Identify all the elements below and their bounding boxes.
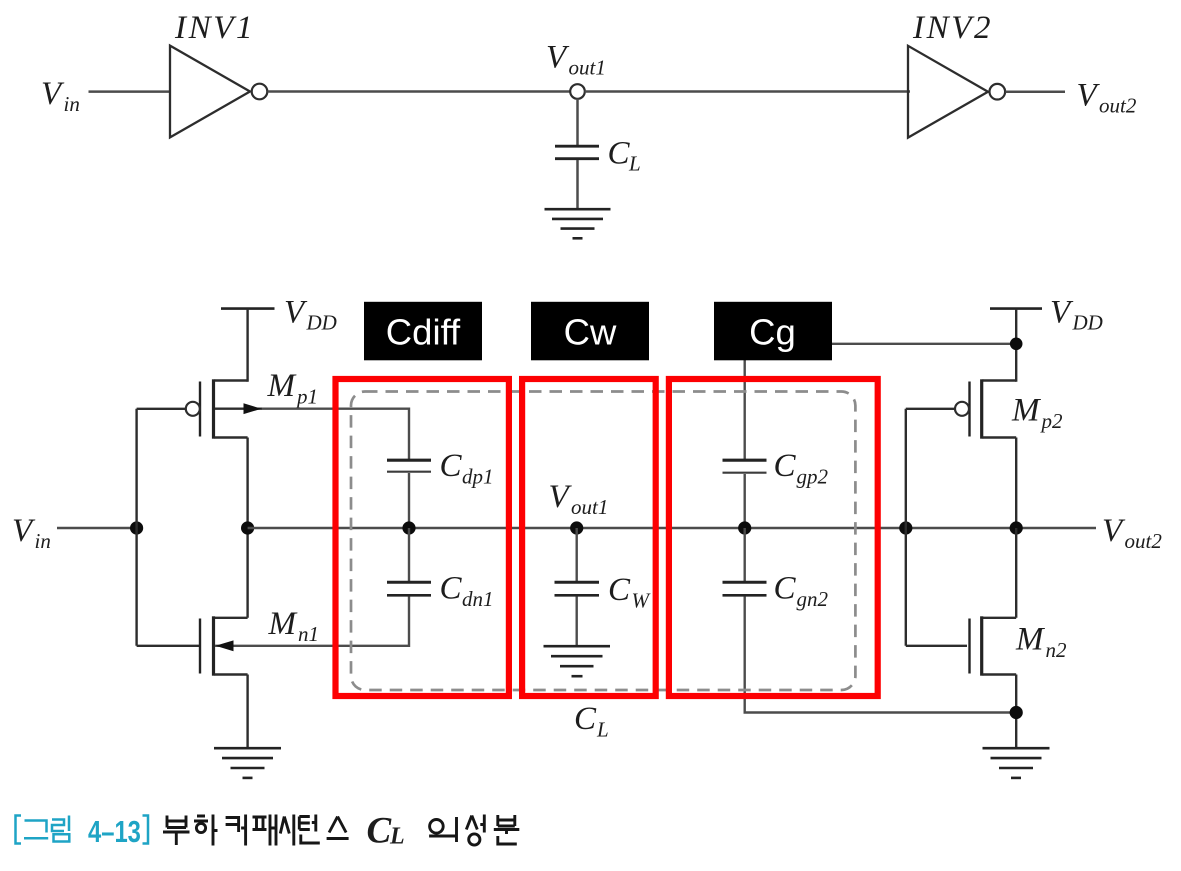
hangul 의 bbox=[429, 817, 456, 842]
hangul 시 bbox=[280, 815, 294, 846]
wire Vin to gate node bbox=[57, 527, 137, 530]
capacitor CW label bbox=[608, 572, 652, 613]
node Vout2 (bottom) label bbox=[1102, 513, 1162, 553]
ground (left inverter) bbox=[214, 748, 281, 778]
wire Mn2 source down to ground bbox=[1015, 675, 1017, 749]
svg-text:V: V bbox=[546, 40, 570, 76]
wire node Vout1 down to capacitor CL bbox=[576, 99, 579, 147]
transistor Q Mn2 (NMOS) bbox=[970, 616, 1017, 675]
Mp1 gate bubble bbox=[186, 402, 200, 416]
node Vout2 (top) label bbox=[1077, 78, 1137, 118]
svg-text:n1: n1 bbox=[298, 622, 319, 646]
capacitor CW plates bbox=[555, 581, 600, 584]
wire node down to CW bbox=[576, 528, 578, 582]
wire Mp2 drain down to Vout2 node bbox=[1015, 438, 1017, 529]
hangul 커 bbox=[226, 815, 246, 846]
wire VDD down to Mp2 source bbox=[1015, 309, 1017, 382]
wire Mn2 drain up to Vout2 node bbox=[1015, 528, 1017, 618]
svg-text:C: C bbox=[608, 136, 631, 172]
wire node to Cdn1 bbox=[408, 528, 410, 582]
power VDD (left) label bbox=[284, 295, 337, 335]
transistor Mn1 label bbox=[268, 606, 320, 646]
transistor Mp1 label bbox=[267, 368, 319, 409]
svg-text:C: C bbox=[367, 811, 393, 852]
junction VDD / Cg node bbox=[1010, 338, 1023, 351]
Mn2 channel bar bbox=[980, 616, 983, 675]
junction node at Cw bbox=[570, 521, 583, 534]
wire gate node vertical (right) bbox=[905, 409, 907, 646]
svg-text:V: V bbox=[1077, 78, 1101, 114]
Mn1 drain lead bbox=[215, 617, 248, 619]
hangul 스 bbox=[327, 817, 349, 839]
ground (right inverter) bbox=[983, 748, 1050, 778]
inverter INV1 output bubble bbox=[252, 84, 268, 100]
junction Vout2 node bbox=[1010, 521, 1023, 534]
wire Vin to INV1 input bbox=[89, 90, 172, 93]
hangul 턴 bbox=[299, 815, 320, 844]
op-amp/inverter INV2 triangle bbox=[908, 46, 988, 138]
caption tag [그림 4-13] (teal) bbox=[16, 814, 149, 849]
svg-text:Cw: Cw bbox=[564, 312, 617, 353]
svg-text:out2: out2 bbox=[1125, 529, 1163, 553]
svg-text:M: M bbox=[268, 606, 298, 642]
svg-text:V: V bbox=[1102, 513, 1126, 549]
svg-text:out1: out1 bbox=[569, 56, 606, 80]
svg-text:Cdiff: Cdiff bbox=[386, 312, 461, 353]
wire output net Vout1 (long horizontal) bbox=[248, 527, 1096, 530]
node Vin (bottom) label bbox=[12, 513, 51, 553]
capacitor Cgn2 branch bbox=[723, 528, 1017, 713]
svg-text:in: in bbox=[35, 529, 51, 553]
wire gate node to Mn1 gate bbox=[137, 645, 199, 647]
wire Cg net from VDD junction to Cgp2 (over and down) bbox=[745, 344, 1016, 460]
node Vin (top) label bbox=[41, 76, 80, 116]
power VDD (right) bar bbox=[990, 307, 1042, 310]
capacitor Cgn2 plates bbox=[723, 581, 767, 584]
svg-text:C: C bbox=[440, 448, 463, 484]
Mp1 gate bar bbox=[199, 382, 201, 437]
node Vout1 (top) open circle bbox=[570, 84, 585, 99]
wire gate node vertical bbox=[135, 409, 137, 646]
svg-text:C: C bbox=[440, 571, 463, 607]
wire VDD to Mp1 source bbox=[246, 309, 248, 382]
red highlight box Cg bbox=[669, 379, 878, 696]
wire INV1 output to node Vout1 bbox=[268, 90, 571, 93]
svg-text:out2: out2 bbox=[1099, 94, 1137, 118]
node Vout1 (top) label bbox=[546, 40, 606, 80]
node Vout1 (bottom) label bbox=[549, 479, 609, 519]
Mn1 source lead bbox=[215, 673, 248, 675]
svg-text:M: M bbox=[1011, 393, 1041, 429]
Mp2 gate bubble bbox=[955, 402, 969, 416]
svg-text:gp2: gp2 bbox=[797, 465, 829, 489]
wire Cgp2 to node bbox=[744, 474, 746, 528]
wire Cdn1 down to Mn1 bulk line bbox=[408, 597, 410, 648]
svg-text:p1: p1 bbox=[295, 385, 318, 409]
svg-text:4–13: 4–13 bbox=[88, 814, 141, 849]
transistor Q Mp1 (PMOS) bbox=[186, 379, 262, 438]
junction node at Cdiff bbox=[402, 521, 415, 534]
svg-text:C: C bbox=[774, 448, 797, 484]
wire capacitor CL to ground bbox=[576, 160, 579, 209]
junction node at Cg bbox=[738, 521, 751, 534]
wire gate node to Mp1 gate bubble bbox=[137, 408, 186, 410]
wire INV2 output to Vout2 bbox=[1006, 90, 1066, 93]
transistor Q Mp2 (PMOS) bbox=[955, 379, 1016, 438]
hangul 분 bbox=[494, 815, 520, 844]
svg-text:p2: p2 bbox=[1040, 409, 1064, 433]
svg-text:in: in bbox=[64, 92, 80, 116]
Mn2 gate bar bbox=[968, 619, 970, 674]
svg-text:M: M bbox=[1015, 622, 1045, 658]
svg-text:DD: DD bbox=[306, 311, 337, 335]
black label box Cw bbox=[531, 302, 649, 361]
Mn1 gate bar bbox=[199, 619, 201, 674]
wire gate node to Mn2 gate bbox=[906, 645, 967, 647]
svg-text:out1: out1 bbox=[571, 495, 608, 519]
svg-text:V: V bbox=[549, 479, 573, 515]
black label box Cdiff bbox=[364, 302, 482, 361]
transistor Q Mn1 (NMOS) bbox=[200, 616, 409, 675]
red highlight box Cw bbox=[522, 379, 656, 696]
wire node Vout1 to INV2 input bbox=[585, 90, 911, 93]
hangul 그 bbox=[24, 821, 48, 839]
wire Cgn2 down to ground rail bbox=[745, 597, 1017, 713]
svg-text:dp1: dp1 bbox=[462, 465, 494, 489]
Mp2 channel bar bbox=[980, 379, 983, 438]
junction drain node (left inverter output) bbox=[241, 521, 254, 534]
capacitor Cdp1 branch bbox=[387, 460, 431, 528]
hangul 하 bbox=[194, 815, 218, 846]
capacitor CL value label bbox=[608, 136, 641, 176]
wire node down to Cgn2 bbox=[744, 528, 746, 582]
svg-text:L: L bbox=[628, 152, 641, 176]
capacitor Cdp1 label bbox=[440, 448, 494, 489]
junction ground rail node bbox=[1010, 706, 1023, 719]
Mn1 bulk line with arrow bbox=[215, 645, 409, 647]
label CL (below dashed group) bbox=[574, 701, 609, 742]
wire gate node to Mp2 bubble bbox=[906, 408, 955, 410]
svg-text:L: L bbox=[389, 824, 405, 850]
capacitor Cdn1 branch bbox=[387, 528, 431, 647]
Mn2 drain lead bbox=[983, 617, 1017, 619]
hangul 림 bbox=[52, 816, 69, 842]
svg-text:C: C bbox=[608, 572, 631, 608]
power VDD (left) bar bbox=[221, 307, 275, 310]
svg-text:V: V bbox=[12, 513, 36, 549]
transistor Mp2 label bbox=[1011, 393, 1063, 434]
Mp1 source lead bbox=[215, 379, 248, 381]
Mp1 bulk line with arrow bbox=[215, 408, 262, 410]
inverter INV2 output bubble bbox=[990, 84, 1006, 100]
dashed group boundary for CL bbox=[351, 392, 855, 691]
capacitor Cdn1 label bbox=[440, 571, 494, 612]
wire Mp1 drain down to output node bbox=[246, 438, 248, 529]
svg-text:W: W bbox=[632, 589, 652, 613]
svg-text:INV2: INV2 bbox=[912, 10, 993, 46]
capacitor CL (top schematic) bbox=[555, 146, 599, 159]
caption text 의 성분 (black) bbox=[429, 815, 519, 846]
wire Mp1 bulk to Cdp1 (horizontal then down) bbox=[262, 409, 409, 460]
capacitor Cgp2 label bbox=[774, 448, 829, 489]
capacitor Cdp1 plates bbox=[387, 459, 431, 462]
bracket [ bbox=[16, 816, 22, 844]
hangul 성 bbox=[466, 815, 484, 846]
Mn1 channel bar bbox=[212, 616, 215, 675]
junction gate node on Vin bbox=[130, 521, 143, 534]
bracket ] bbox=[143, 816, 149, 844]
svg-text:dn1: dn1 bbox=[462, 587, 494, 611]
Mn2 source lead bbox=[983, 673, 1017, 675]
wire Mn1 drain up to output node bbox=[246, 528, 248, 618]
ground (top schematic) bbox=[545, 209, 611, 238]
capacitor Cgp2 plates bbox=[723, 460, 767, 528]
Mp2 drain lead bbox=[983, 436, 1017, 438]
svg-text:M: M bbox=[267, 368, 297, 404]
black label box Cg bbox=[714, 302, 832, 361]
caption text 부하 커패시턴스 (black) bbox=[163, 815, 349, 846]
hangul 패 bbox=[253, 815, 277, 846]
junction INV2 input gate node bbox=[899, 521, 912, 534]
svg-text:V: V bbox=[1050, 295, 1074, 331]
Mp2 source lead bbox=[983, 379, 1017, 381]
Mp1 drain lead bbox=[215, 436, 248, 438]
red highlight box Cdiff bbox=[336, 379, 509, 696]
op-amp/inverter INV1 triangle bbox=[170, 46, 250, 138]
transistor Mn2 label bbox=[1015, 622, 1067, 663]
wire CW to ground bbox=[576, 597, 578, 647]
ground (under CW) bbox=[544, 646, 611, 676]
svg-text:Cg: Cg bbox=[749, 312, 796, 353]
wire Mn1 source down to ground bbox=[246, 675, 248, 749]
wire Cdp1 to node bbox=[408, 473, 410, 528]
svg-text:n2: n2 bbox=[1046, 638, 1068, 662]
svg-text:L: L bbox=[596, 718, 609, 742]
svg-text:DD: DD bbox=[1072, 311, 1103, 335]
capacitor CW branch bbox=[555, 528, 600, 646]
svg-text:V: V bbox=[284, 295, 308, 331]
svg-text:V: V bbox=[41, 76, 65, 112]
Mp1 channel bar bbox=[212, 379, 215, 438]
svg-text:INV1: INV1 bbox=[174, 10, 255, 46]
hangul 부 bbox=[163, 816, 190, 846]
caption math CL bbox=[367, 811, 405, 852]
svg-text:C: C bbox=[574, 701, 597, 737]
capacitor Cgn2 label bbox=[774, 571, 829, 612]
capacitor Cdn1 plates bbox=[387, 581, 431, 584]
svg-text:C: C bbox=[774, 571, 797, 607]
Mp2 gate bar bbox=[968, 382, 970, 437]
svg-text:gn2: gn2 bbox=[797, 587, 829, 611]
power VDD (right) label bbox=[1050, 295, 1103, 335]
